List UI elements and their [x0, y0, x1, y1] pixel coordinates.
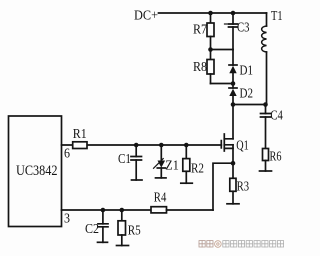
wire R8-to-diodes [211, 83, 234, 85]
resistor R3 [232, 163, 234, 178]
svg-text:UC3842: UC3842 [16, 163, 58, 179]
svg-text:R6: R6 [270, 150, 282, 165]
ground C1 [132, 179, 143, 181]
node R5 [120, 208, 125, 213]
watermark [199, 241, 205, 247]
resistor R4 [151, 207, 167, 213]
wire D2-to-T1 [233, 104, 266, 106]
node T1-C4 [263, 102, 268, 107]
svg-text:T1: T1 [271, 9, 283, 24]
ground Z1 [156, 177, 167, 179]
svg-text:D1: D1 [240, 64, 254, 79]
svg-text:R1: R1 [73, 127, 87, 142]
svg-text:D2: D2 [240, 86, 254, 101]
ground R6 [260, 170, 272, 172]
svg-text:R7: R7 [193, 23, 207, 38]
node D1-D2 [231, 81, 236, 86]
svg-text:DC+: DC+ [134, 9, 158, 24]
resistor R2 [185, 145, 187, 159]
node R7-R8 [208, 47, 213, 52]
node top-C3 [231, 11, 236, 16]
wire R7R8-to-C3 [211, 49, 234, 51]
resistor R1 [73, 142, 87, 149]
node Z1 [159, 143, 164, 148]
svg-text:R3: R3 [237, 180, 250, 195]
node top-R7 [208, 11, 213, 16]
svg-text:R4: R4 [154, 191, 167, 206]
resistor R5 [121, 210, 123, 221]
IC U1 UC3842 [9, 116, 62, 227]
svg-text:C2: C2 [85, 222, 99, 237]
resistor R8 [210, 50, 212, 60]
svg-text:R2: R2 [191, 162, 204, 177]
svg-text:6: 6 [64, 147, 70, 162]
transistor Q1 [220, 141, 222, 148]
svg-text:C3: C3 [237, 21, 250, 36]
node R2 [184, 143, 189, 148]
diode D1 [232, 50, 234, 66]
ground R2 [181, 182, 193, 184]
capacitor C3 [232, 13, 234, 24]
diode D2 [232, 84, 234, 89]
ground R5 [117, 245, 129, 247]
capacitor C4 [265, 105, 267, 114]
wire pin6-gate [62, 144, 222, 146]
wire drain [232, 105, 234, 139]
transformer T1 [266, 13, 268, 105]
resistor R7 [210, 15, 212, 23]
svg-text:R5: R5 [128, 224, 141, 239]
node D2-out [231, 102, 236, 107]
node source [231, 161, 236, 166]
ground C2 [98, 241, 108, 243]
ground R3 [227, 203, 239, 205]
wire top rail [159, 12, 267, 14]
svg-text:C1: C1 [118, 152, 131, 167]
zener Z1 [160, 145, 162, 161]
svg-text:Q1: Q1 [236, 139, 249, 154]
capacitor C1 [135, 145, 137, 157]
svg-text:R8: R8 [193, 60, 207, 75]
svg-text:Z1: Z1 [165, 158, 179, 173]
wire source-to-R4 [213, 163, 233, 210]
wire pin3 [62, 209, 152, 211]
capacitor C2 [102, 210, 104, 224]
svg-text:C4: C4 [270, 108, 283, 123]
node C2 [101, 208, 106, 213]
svg-text:3: 3 [64, 211, 70, 226]
node C1 [134, 143, 139, 148]
resistor R6 [263, 149, 269, 161]
